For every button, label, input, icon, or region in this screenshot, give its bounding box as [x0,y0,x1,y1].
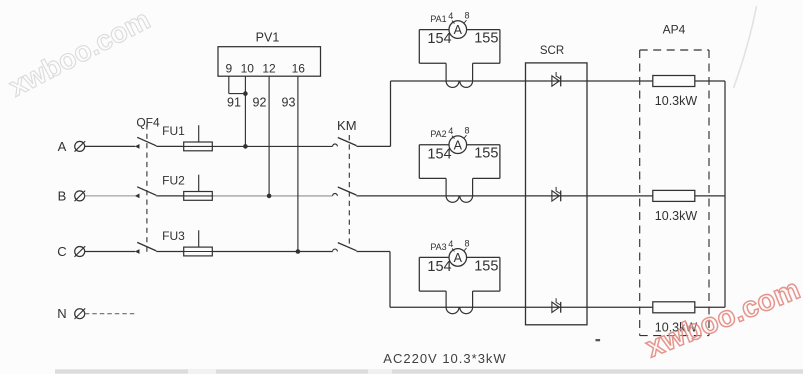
svg-text:B: B [58,188,67,203]
svg-text:SCR: SCR [540,45,564,57]
svg-text:10.3kW: 10.3kW [655,209,698,223]
svg-text:8: 8 [464,238,469,248]
svg-text:A: A [454,138,463,152]
svg-text:154: 154 [427,259,451,275]
svg-text:93: 93 [282,96,296,110]
svg-text:FU2: FU2 [162,174,185,188]
svg-text:PA3: PA3 [430,242,446,252]
svg-text:12: 12 [262,62,276,76]
svg-text:C: C [57,244,66,259]
svg-text:9: 9 [225,62,232,76]
svg-text:16: 16 [292,62,306,76]
svg-text:4: 4 [448,126,453,136]
svg-text:FU1: FU1 [162,124,185,138]
svg-text:A: A [454,23,463,37]
svg-text:PA2: PA2 [430,129,446,139]
svg-text:154: 154 [427,146,451,162]
svg-text:AP4: AP4 [663,23,686,37]
svg-text:N: N [57,306,66,321]
svg-text:8: 8 [464,11,469,21]
svg-text:A: A [58,139,67,154]
svg-text:QF4: QF4 [136,116,160,130]
svg-text:10: 10 [241,62,255,76]
svg-text:155: 155 [474,146,498,162]
svg-text:155: 155 [474,31,498,47]
svg-text:8: 8 [464,126,469,136]
svg-text:91: 91 [227,96,241,110]
svg-text:A: A [454,251,463,265]
svg-text:AC220V 10.3*3kW: AC220V 10.3*3kW [383,351,506,366]
svg-text:PV1: PV1 [256,31,280,45]
svg-text:10.3kW: 10.3kW [655,94,698,108]
svg-text:92: 92 [253,96,267,110]
svg-text:FU3: FU3 [162,229,185,243]
svg-text:154: 154 [427,31,451,47]
svg-text:KM: KM [337,118,357,133]
svg-text:PA1: PA1 [430,14,446,24]
svg-text:4: 4 [448,239,453,249]
svg-text:4: 4 [448,11,453,21]
svg-text:155: 155 [474,258,498,274]
